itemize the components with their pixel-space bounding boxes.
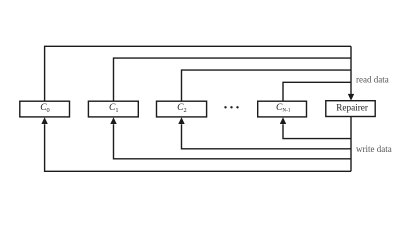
arrowhead into C0 bottom (41, 117, 47, 124)
block C0 (20, 101, 70, 117)
wire read CN-1 (283, 82, 351, 101)
ellipsis dots between C2 and CN-1 (224, 106, 226, 108)
arrowhead into Repairer top (348, 94, 354, 101)
arrowhead into C2 bottom (178, 117, 184, 124)
wire write C0 (45, 124, 351, 171)
svg-text:write data: write data (356, 144, 392, 154)
block Repairer (326, 101, 375, 117)
wire write vertical from Repairer bottom (350, 117, 352, 172)
svg-text:Repairer: Repairer (336, 103, 368, 113)
svg-text:read data: read data (356, 75, 389, 85)
arrowhead into C1 bottom (110, 117, 116, 124)
arrowhead into CN-1 bottom (280, 117, 286, 124)
block C1 (88, 101, 138, 117)
block CN-1 (258, 101, 307, 117)
wire read C0 (top of C0 up to top bus line, right to read node) (45, 46, 351, 101)
wire write C1 (114, 124, 352, 159)
block C2 (157, 101, 207, 117)
wire read C1 (114, 58, 352, 101)
wire read C2 (182, 70, 352, 101)
wire write C2 (182, 124, 352, 149)
wire write CN-1 (283, 124, 351, 138)
wire read vertical into Repairer (350, 46, 352, 94)
